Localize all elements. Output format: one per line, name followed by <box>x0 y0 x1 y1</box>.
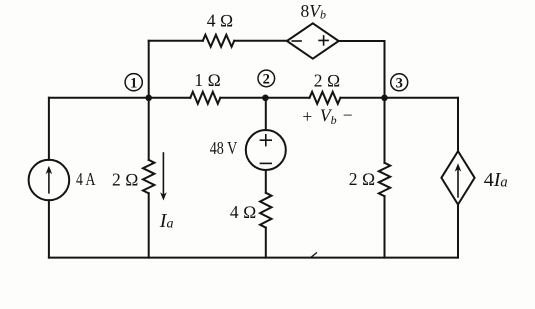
wire 4ohm down to bottom rail <box>265 228 267 258</box>
svg-text:1: 1 <box>130 75 137 91</box>
current source 4A circle <box>29 160 70 201</box>
wire left branch lower <box>48 200 50 257</box>
svg-text:Vb: Vb <box>320 106 337 128</box>
node label 2 <box>258 70 275 87</box>
minus sign inside 8Vb <box>292 40 301 42</box>
svg-text:3: 3 <box>396 76 403 92</box>
node 1 junction dot <box>145 95 152 102</box>
wire 1ohm to 2ohm through node 2 <box>220 97 309 99</box>
svg-text:−: − <box>343 105 353 125</box>
resistor 4 ohm top <box>203 35 234 47</box>
svg-text:+: + <box>302 107 312 127</box>
plus sign inside 48V <box>260 135 271 146</box>
arrow inside 4Ia source <box>457 168 459 197</box>
svg-text:Ia: Ia <box>159 210 174 232</box>
scan tick on bottom rail <box>311 253 317 257</box>
svg-text:4 Ω: 4 Ω <box>207 11 234 31</box>
resistor 2 ohm right vertical <box>379 163 390 196</box>
wire left branch upper <box>48 98 50 160</box>
svg-text:4 Ω: 4 Ω <box>230 202 257 222</box>
resistor 2 ohm left vertical <box>143 160 154 193</box>
svg-text:2 Ω: 2 Ω <box>112 170 139 190</box>
svg-text:48 V: 48 V <box>210 138 238 158</box>
wire node 2 down to 48V source <box>265 98 267 130</box>
minus sign inside 48V <box>260 162 271 164</box>
wire bottom rail <box>49 257 458 259</box>
wire vertical top-left down to node 1 <box>148 41 150 98</box>
dependent voltage source 8Vb diamond <box>287 23 339 58</box>
node label 1 <box>125 74 142 91</box>
wire vertical top-right down to node 3 <box>384 41 386 98</box>
wire 2ohm down to bottom rail <box>384 196 386 257</box>
svg-text:8Vb: 8Vb <box>301 1 326 21</box>
resistor 1 ohm <box>190 92 220 104</box>
node 3 junction dot <box>381 95 388 102</box>
svg-text:4Ia: 4Ia <box>484 169 508 191</box>
wire node row left segment <box>49 97 190 99</box>
wire right branch upper <box>457 98 459 151</box>
wire diamond to top-right corner <box>339 40 385 42</box>
wire right branch lower <box>457 205 459 258</box>
wire 4ohm to dependent source <box>234 40 287 42</box>
resistor 2 ohm horizontal <box>310 92 341 104</box>
current arrow Ia <box>162 153 164 195</box>
svg-text:2 Ω: 2 Ω <box>349 169 376 189</box>
svg-text:2: 2 <box>263 72 270 88</box>
svg-text:2 Ω: 2 Ω <box>314 71 341 91</box>
node 2 junction dot <box>262 95 269 102</box>
resistor 4 ohm vertical <box>260 193 271 228</box>
wire top-left horizontal <box>149 40 203 42</box>
wire node 1 down to 2ohm <box>148 98 150 160</box>
svg-text:1 Ω: 1 Ω <box>194 70 221 90</box>
wire 48V to 4ohm <box>265 170 267 193</box>
wire 2ohm down to bottom rail <box>148 193 150 257</box>
wire 2ohm through node 3 to right corner <box>340 97 458 99</box>
wire node 3 down to 2ohm <box>384 98 386 163</box>
dependent current source 4Ia diamond <box>441 151 474 204</box>
svg-text:4 A: 4 A <box>76 169 96 189</box>
arrow inside 4A source <box>48 171 50 193</box>
plus sign inside 8Vb <box>319 36 328 45</box>
node label 3 <box>391 74 408 91</box>
voltage source 48V circle <box>246 130 286 170</box>
